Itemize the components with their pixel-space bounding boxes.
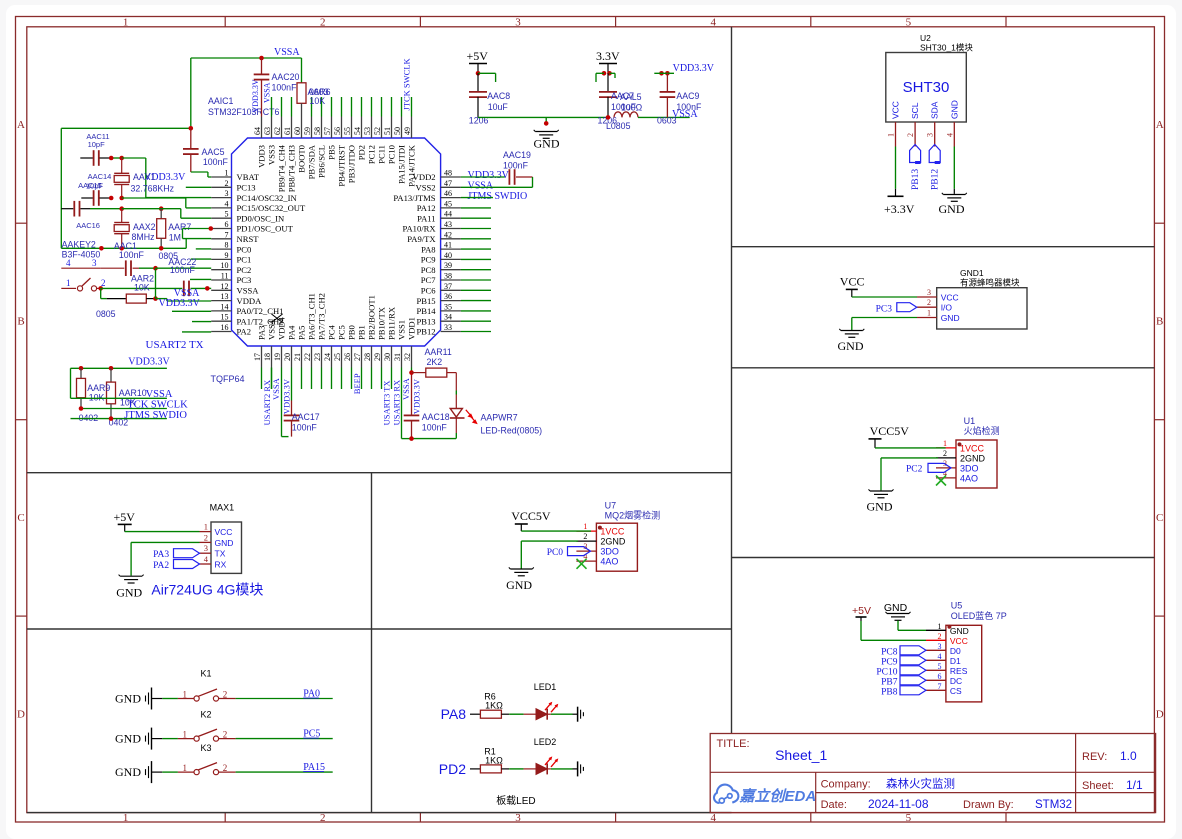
svg-text:PB7/SDA: PB7/SDA xyxy=(307,144,317,179)
svg-text:7: 7 xyxy=(225,230,229,239)
frame row ticks left/right xyxy=(16,222,27,224)
svg-text:2: 2 xyxy=(583,532,587,541)
svg-text:U7: U7 xyxy=(605,501,617,511)
svg-text:AAC19: AAC19 xyxy=(503,150,531,160)
svg-text:PA11: PA11 xyxy=(417,213,435,223)
svg-text:Drawn By:: Drawn By: xyxy=(963,799,1014,811)
svg-text:55: 55 xyxy=(343,127,352,135)
svg-text:100nF: 100nF xyxy=(503,161,529,171)
wire pin19 down to cap bottom xyxy=(281,368,283,437)
svg-text:GND: GND xyxy=(215,538,234,548)
svg-text:1VCC: 1VCC xyxy=(600,527,625,537)
svg-text:PB2/BOOT1: PB2/BOOT1 xyxy=(367,295,377,340)
svg-text:PC6: PC6 xyxy=(421,286,437,296)
svg-text:7: 7 xyxy=(938,682,942,691)
MCU right pin dangling wires xyxy=(461,207,491,209)
wire U1 pin2 to GND xyxy=(881,457,938,459)
svg-text:19: 19 xyxy=(273,353,282,361)
svg-text:3DO: 3DO xyxy=(960,463,979,473)
svg-text:+5V: +5V xyxy=(467,49,489,63)
svg-text:AAR7: AAR7 xyxy=(168,222,191,232)
crystal AAX1 xyxy=(121,158,123,173)
svg-text:CS: CS xyxy=(950,686,962,696)
svg-text:1: 1 xyxy=(123,812,129,824)
svg-text:64: 64 xyxy=(253,127,262,135)
svg-text:24: 24 xyxy=(323,353,332,361)
svg-text:PA12: PA12 xyxy=(417,203,436,213)
svg-text:15: 15 xyxy=(221,313,229,322)
svg-text:BOOT0: BOOT0 xyxy=(297,145,307,173)
svg-text:3: 3 xyxy=(204,543,208,553)
svg-text:8: 8 xyxy=(225,241,229,250)
svg-text:1: 1 xyxy=(943,439,947,448)
svg-text:2: 2 xyxy=(204,532,208,542)
svg-text:3: 3 xyxy=(927,288,931,297)
wire pin31 down to bottom row xyxy=(401,368,403,439)
svg-text:45: 45 xyxy=(444,199,452,208)
svg-text:Sheet_1: Sheet_1 xyxy=(775,747,827,763)
svg-text:VBAT: VBAT xyxy=(237,172,260,182)
frame column ticks top/bottom xyxy=(224,17,226,27)
svg-text:VSSA: VSSA xyxy=(468,181,494,192)
svg-text:TITLE:: TITLE: xyxy=(717,738,750,750)
capacitor AAC14 xyxy=(81,197,93,199)
svg-text:PA15/JTDI: PA15/JTDI xyxy=(397,145,407,184)
svg-text:37: 37 xyxy=(444,282,452,291)
svg-text:PB8: PB8 xyxy=(881,687,898,697)
capacitor AAC20 xyxy=(261,58,263,75)
MCU bottom pin dangling wires xyxy=(261,368,263,390)
svg-text:GND: GND xyxy=(950,626,969,636)
svg-text:PC14/OSC32_IN: PC14/OSC32_IN xyxy=(237,193,298,203)
svg-text:4: 4 xyxy=(66,258,71,268)
section divider horizontals right column xyxy=(732,246,1155,248)
svg-text:5: 5 xyxy=(906,17,912,29)
svg-text:PB13: PB13 xyxy=(911,169,921,190)
svg-text:1.0: 1.0 xyxy=(1120,749,1137,763)
svg-text:2: 2 xyxy=(225,179,229,188)
section divider horizontals left area xyxy=(27,472,732,474)
wire VCC to pin3 xyxy=(852,296,917,298)
svg-text:TQFP64: TQFP64 xyxy=(211,374,245,384)
wire osc32-in jog to pin3 xyxy=(122,157,146,159)
svg-text:2: 2 xyxy=(223,690,228,700)
wire pin47 xyxy=(461,186,497,188)
svg-text:16: 16 xyxy=(221,323,229,332)
wire to pin13 VDDA xyxy=(156,298,167,300)
MCU bottom pins 17-32 xyxy=(261,346,263,368)
svg-text:GND1: GND1 xyxy=(960,268,984,278)
section divider vertical x=371.5 xyxy=(371,473,373,813)
wire pin15 stub xyxy=(192,321,211,323)
svg-text:AAL5: AAL5 xyxy=(620,92,642,102)
LED arrows red xyxy=(466,410,477,424)
svg-text:59: 59 xyxy=(303,127,312,135)
svg-text:DC: DC xyxy=(950,676,962,686)
ground GND SHT30 xyxy=(943,194,965,196)
module U5 OLED box xyxy=(946,625,982,702)
svg-text:18: 18 xyxy=(263,353,272,361)
svg-text:61: 61 xyxy=(283,127,292,135)
svg-text:RES: RES xyxy=(950,666,968,676)
svg-text:SHT30_1模块: SHT30_1模块 xyxy=(920,43,973,53)
svg-text:1: 1 xyxy=(66,278,71,288)
svg-text:PA5: PA5 xyxy=(297,326,307,341)
svg-text:AAC18: AAC18 xyxy=(422,412,450,422)
svg-text:B: B xyxy=(1156,316,1163,328)
svg-text:VSSA: VSSA xyxy=(401,377,411,400)
junction AAC1 out xyxy=(153,266,158,271)
svg-text:4AO: 4AO xyxy=(600,557,618,567)
svg-text:B: B xyxy=(17,316,24,328)
svg-text:39: 39 xyxy=(444,261,452,270)
svg-text:1: 1 xyxy=(204,522,208,532)
svg-text:2: 2 xyxy=(927,298,931,307)
svg-text:VCC: VCC xyxy=(215,527,233,537)
svg-text:PB7: PB7 xyxy=(881,677,898,687)
junction dots AAC11 wire xyxy=(109,156,114,161)
svg-text:32.768KHz: 32.768KHz xyxy=(131,184,175,194)
svg-text:PC5: PC5 xyxy=(337,325,347,340)
svg-text:VDD4: VDD4 xyxy=(277,316,287,340)
svg-text:36: 36 xyxy=(444,292,452,301)
svg-text:3: 3 xyxy=(515,17,521,29)
svg-text:2K2: 2K2 xyxy=(427,357,443,367)
svg-text:PC10: PC10 xyxy=(387,145,397,164)
svg-text:VDD3.3V: VDD3.3V xyxy=(673,63,715,74)
resistor AAR10 10K xyxy=(110,368,112,382)
svg-text:47: 47 xyxy=(444,179,452,188)
svg-text:2: 2 xyxy=(320,17,326,29)
resistor AAR6 10K boot0 xyxy=(301,58,303,83)
svg-text:GND: GND xyxy=(116,586,142,600)
svg-text:4: 4 xyxy=(710,17,716,29)
svg-text:46: 46 xyxy=(444,189,452,198)
wire VCC5V to U1 pin1 xyxy=(875,447,946,449)
svg-text:VCC: VCC xyxy=(891,101,901,119)
svg-text:TX: TX xyxy=(215,549,226,559)
svg-text:TCK SWCLK: TCK SWCLK xyxy=(127,400,188,411)
svg-text:VSSA: VSSA xyxy=(263,82,272,103)
svg-text:SCL: SCL xyxy=(910,102,920,119)
svg-text:D0: D0 xyxy=(950,646,961,656)
svg-text:AAC5: AAC5 xyxy=(202,147,225,157)
svg-text:PC7: PC7 xyxy=(421,275,437,285)
svg-text:AAX2: AAX2 xyxy=(133,222,156,232)
wire pin14 stub xyxy=(172,310,211,312)
svg-text:4AO: 4AO xyxy=(960,473,978,483)
wire SHT30 pin4 to GND xyxy=(953,147,955,189)
svg-text:100nF: 100nF xyxy=(119,250,145,260)
svg-text:C: C xyxy=(17,512,24,524)
svg-text:VSSA: VSSA xyxy=(271,377,281,400)
svg-text:LED2: LED2 xyxy=(534,737,557,747)
svg-text:11: 11 xyxy=(221,272,229,281)
svg-text:AAR11: AAR11 xyxy=(425,347,452,357)
wire jog to pin7 NRST xyxy=(185,239,187,249)
svg-text:PA9/TX: PA9/TX xyxy=(407,234,436,244)
SHT30 pin stubs and numbers xyxy=(895,122,897,147)
svg-text:VCC5V: VCC5V xyxy=(511,509,551,523)
capacitor AAC18 xyxy=(411,368,413,373)
MCU top pins 64-49 xyxy=(261,117,263,139)
transistor U7 MQ2 sensor box xyxy=(596,523,637,571)
transistor U1 flame sensor box xyxy=(956,440,997,488)
svg-text:2GND: 2GND xyxy=(960,453,986,463)
node PB12 flag xyxy=(929,145,940,163)
svg-text:AAC8: AAC8 xyxy=(487,91,510,101)
junction AAR2 out xyxy=(153,296,158,301)
junction 3.3V dots xyxy=(602,71,607,76)
svg-text:100nF: 100nF xyxy=(422,423,448,433)
svg-text:100nF: 100nF xyxy=(203,157,229,167)
svg-text:2GND: 2GND xyxy=(600,537,626,547)
svg-text:100Ω: 100Ω xyxy=(621,103,643,113)
svg-text:GND: GND xyxy=(506,578,532,592)
svg-text:LED1: LED1 xyxy=(534,682,557,692)
ground GND buzzer xyxy=(841,330,863,332)
svg-text:52: 52 xyxy=(373,127,382,135)
svg-text:2: 2 xyxy=(320,812,326,824)
logo JLC EDA cloud xyxy=(714,785,738,803)
svg-text:5: 5 xyxy=(938,662,942,671)
svg-text:PA13/JTMS: PA13/JTMS xyxy=(393,193,435,203)
svg-text:PC8: PC8 xyxy=(421,265,436,275)
svg-text:30: 30 xyxy=(383,353,392,361)
ground GND top xyxy=(535,131,557,133)
svg-text:34: 34 xyxy=(444,313,452,322)
svg-text:VCC: VCC xyxy=(950,636,968,646)
wire key down to AAR2 xyxy=(100,288,102,298)
ground GND flame xyxy=(870,490,892,492)
svg-text:PA3: PA3 xyxy=(257,326,267,341)
svg-text:10uF: 10uF xyxy=(488,102,509,112)
svg-text:PB8/T4_CH3: PB8/T4_CH3 xyxy=(287,145,297,192)
svg-text:62: 62 xyxy=(273,127,282,135)
svg-text:PA10/RX: PA10/RX xyxy=(402,224,436,234)
svg-text:2: 2 xyxy=(906,133,915,137)
svg-text:NRST: NRST xyxy=(237,234,260,244)
capacitor AAC5 xyxy=(190,128,192,149)
svg-text:PA2: PA2 xyxy=(153,561,169,571)
svg-text:4: 4 xyxy=(225,199,229,208)
svg-text:AAC9: AAC9 xyxy=(676,91,699,101)
svg-text:JTCK SWCLK: JTCK SWCLK xyxy=(402,57,412,110)
svg-text:PC2: PC2 xyxy=(237,265,252,275)
svg-text:PB6/SCL: PB6/SCL xyxy=(317,145,327,178)
key bottom row pins 1-2 wire with lever xyxy=(61,287,76,289)
no-connect X U7 pin4 xyxy=(577,559,587,569)
svg-text:20: 20 xyxy=(283,353,292,361)
wire pin11 stub xyxy=(190,278,211,280)
wire osc32-out jog to pin4 xyxy=(122,197,186,199)
svg-text:23: 23 xyxy=(313,353,322,361)
wire pin16 stub xyxy=(182,331,211,333)
junction dots bottom row xyxy=(99,246,104,251)
svg-text:PB12: PB12 xyxy=(931,169,941,190)
svg-text:10: 10 xyxy=(221,261,229,270)
capacitor AAC9 100nF xyxy=(666,73,668,92)
svg-text:GND: GND xyxy=(941,313,960,323)
svg-text:PB0: PB0 xyxy=(347,325,357,340)
capacitor AAC7 100uF xyxy=(607,73,609,92)
svg-text:100nF: 100nF xyxy=(170,265,196,275)
svg-text:1/1: 1/1 xyxy=(1126,778,1143,792)
svg-text:3DO: 3DO xyxy=(600,547,619,557)
svg-text:3: 3 xyxy=(938,642,942,651)
svg-text:44: 44 xyxy=(444,210,452,219)
svg-text:21: 21 xyxy=(293,353,302,361)
MCU right pins 48-33 xyxy=(441,176,461,178)
junction rail corner xyxy=(189,126,194,131)
svg-text:PA0/T2_CH1: PA0/T2_CH1 xyxy=(237,306,284,316)
key top row pins 4-3 wire xyxy=(61,267,80,269)
svg-text:27: 27 xyxy=(353,353,362,361)
LED AAPWR7 red xyxy=(450,409,462,418)
svg-text:3: 3 xyxy=(225,189,229,198)
svg-text:VCC: VCC xyxy=(941,292,959,302)
svg-text:USART3 RX: USART3 RX xyxy=(392,380,402,426)
wire VDD33 stub xyxy=(654,72,674,74)
svg-text:GND: GND xyxy=(939,202,965,216)
svg-text:AAR9: AAR9 xyxy=(87,383,110,393)
junction AAC7 bottom xyxy=(606,115,611,120)
svg-text:VSS1: VSS1 xyxy=(397,320,407,340)
svg-text:1: 1 xyxy=(225,169,229,178)
svg-text:LED-Red(0805): LED-Red(0805) xyxy=(481,426,543,436)
svg-text:VDD3.3V: VDD3.3V xyxy=(251,79,260,112)
svg-text:Sheet:: Sheet: xyxy=(1082,780,1114,792)
svg-text:板载LED: 板载LED xyxy=(496,794,535,807)
svg-text:41: 41 xyxy=(444,241,452,250)
svg-text:C: C xyxy=(1156,512,1163,524)
svg-text:3: 3 xyxy=(926,133,935,137)
svg-text:PC9: PC9 xyxy=(421,255,436,265)
svg-text:60: 60 xyxy=(293,127,302,135)
svg-text:PC1: PC1 xyxy=(237,255,252,265)
svg-text:GND: GND xyxy=(115,765,141,779)
svg-text:GND: GND xyxy=(884,602,908,614)
module MAX1 box xyxy=(211,522,242,573)
wire U7 pin2 to GND xyxy=(521,540,578,542)
svg-text:4: 4 xyxy=(710,812,716,824)
svg-text:9: 9 xyxy=(225,251,229,260)
junction VSSA-AAC20 xyxy=(259,56,264,61)
svg-text:VSSA: VSSA xyxy=(146,389,173,400)
svg-text:PD2: PD2 xyxy=(439,761,466,777)
wire MAX1 pin2 to GND xyxy=(131,541,199,543)
svg-text:PB10/TX: PB10/TX xyxy=(377,306,387,340)
svg-text:12: 12 xyxy=(221,282,229,291)
capacitor AAC11 xyxy=(80,157,93,159)
svg-text:28: 28 xyxy=(363,353,372,361)
svg-text:3.3V: 3.3V xyxy=(596,49,620,63)
svg-text:32: 32 xyxy=(403,353,412,361)
resistor AAR11 2K2 xyxy=(412,372,426,374)
svg-text:AAX1: AAX1 xyxy=(133,172,156,182)
svg-text:D1: D1 xyxy=(950,656,961,666)
svg-text:嘉立创EDA: 嘉立创EDA xyxy=(739,787,817,805)
svg-text:PA3: PA3 xyxy=(153,550,169,560)
svg-text:PA7/T3_CH2: PA7/T3_CH2 xyxy=(317,293,327,340)
svg-text:PC2: PC2 xyxy=(906,465,923,475)
capacitor AAC17 xyxy=(291,368,293,401)
svg-text:VCC5V: VCC5V xyxy=(870,424,910,438)
svg-text:L0805: L0805 xyxy=(606,121,631,131)
no-connect X U1 pin4 xyxy=(936,476,946,486)
wire TCK SWCLK row xyxy=(81,408,167,410)
svg-text:K1: K1 xyxy=(201,669,212,679)
wire crystal bottom row xyxy=(61,247,186,249)
svg-text:VDD3.3V: VDD3.3V xyxy=(412,378,422,414)
svg-text:VSSA: VSSA xyxy=(237,286,260,296)
wire +5V hook xyxy=(478,72,496,74)
svg-text:PC10: PC10 xyxy=(876,667,897,677)
svg-text:53: 53 xyxy=(363,127,372,135)
svg-text:VDDA: VDDA xyxy=(237,296,263,306)
svg-text:PB3/JTDO: PB3/JTDO xyxy=(347,145,357,183)
svg-text:56: 56 xyxy=(333,127,342,135)
svg-text:+3.3V: +3.3V xyxy=(884,202,915,216)
svg-text:38: 38 xyxy=(444,272,452,281)
power +3.3V symbol xyxy=(888,195,904,197)
svg-text:PD2: PD2 xyxy=(357,145,367,160)
svg-text:火焰检测: 火焰检测 xyxy=(964,425,1000,436)
wire pin2 stub xyxy=(186,186,211,188)
svg-text:PB1: PB1 xyxy=(357,325,367,340)
svg-text:Date:: Date: xyxy=(821,799,847,811)
svg-text:PC3: PC3 xyxy=(876,305,893,315)
svg-text:49: 49 xyxy=(403,127,412,135)
svg-text:有源蜂鸣器模块: 有源蜂鸣器模块 xyxy=(960,278,1020,288)
svg-text:1: 1 xyxy=(183,730,188,740)
op-amp AAIC1 STM32F103RCT6 chip body xyxy=(232,138,441,346)
wire VCC5V to U7 pin1 xyxy=(521,530,591,532)
MCU left pins 1-16 xyxy=(211,176,231,178)
svg-text:4: 4 xyxy=(938,652,942,661)
svg-text:1: 1 xyxy=(183,690,188,700)
svg-text:GND: GND xyxy=(867,500,893,514)
svg-text:57: 57 xyxy=(323,127,332,135)
svg-text:U5: U5 xyxy=(951,601,963,611)
junction pin12 wire xyxy=(205,286,210,291)
svg-text:10pF: 10pF xyxy=(88,140,106,149)
svg-text:5: 5 xyxy=(906,812,912,824)
svg-text:D: D xyxy=(1156,708,1164,720)
svg-text:VDD3.3V: VDD3.3V xyxy=(159,298,201,309)
svg-text:GND: GND xyxy=(534,137,560,151)
junction VDD33 dots xyxy=(659,71,664,76)
svg-text:PA6/T3_CH1: PA6/T3_CH1 xyxy=(307,293,317,340)
resistor AAR2 10K xyxy=(107,298,127,300)
svg-text:U2: U2 xyxy=(920,33,931,43)
capacitor AAC1 xyxy=(101,267,125,269)
svg-text:AAC20: AAC20 xyxy=(272,72,300,82)
svg-text:PB14: PB14 xyxy=(416,306,436,316)
resistor AAR7 1M xyxy=(160,209,162,219)
svg-text:14: 14 xyxy=(221,302,229,311)
svg-text:PC0: PC0 xyxy=(237,244,252,254)
wire pin46 xyxy=(461,197,493,199)
svg-text:PC13: PC13 xyxy=(237,183,256,193)
svg-text:2024-11-08: 2024-11-08 xyxy=(868,797,929,811)
svg-text:0603: 0603 xyxy=(657,116,677,126)
svg-text:森林火灾监测: 森林火灾监测 xyxy=(886,777,955,791)
wire osc-in jog to pin5 xyxy=(122,208,162,210)
svg-text:PB4/JTRST: PB4/JTRST xyxy=(337,144,347,186)
svg-text:VSSA: VSSA xyxy=(274,47,300,58)
section divider vertical x=731 xyxy=(731,27,733,734)
